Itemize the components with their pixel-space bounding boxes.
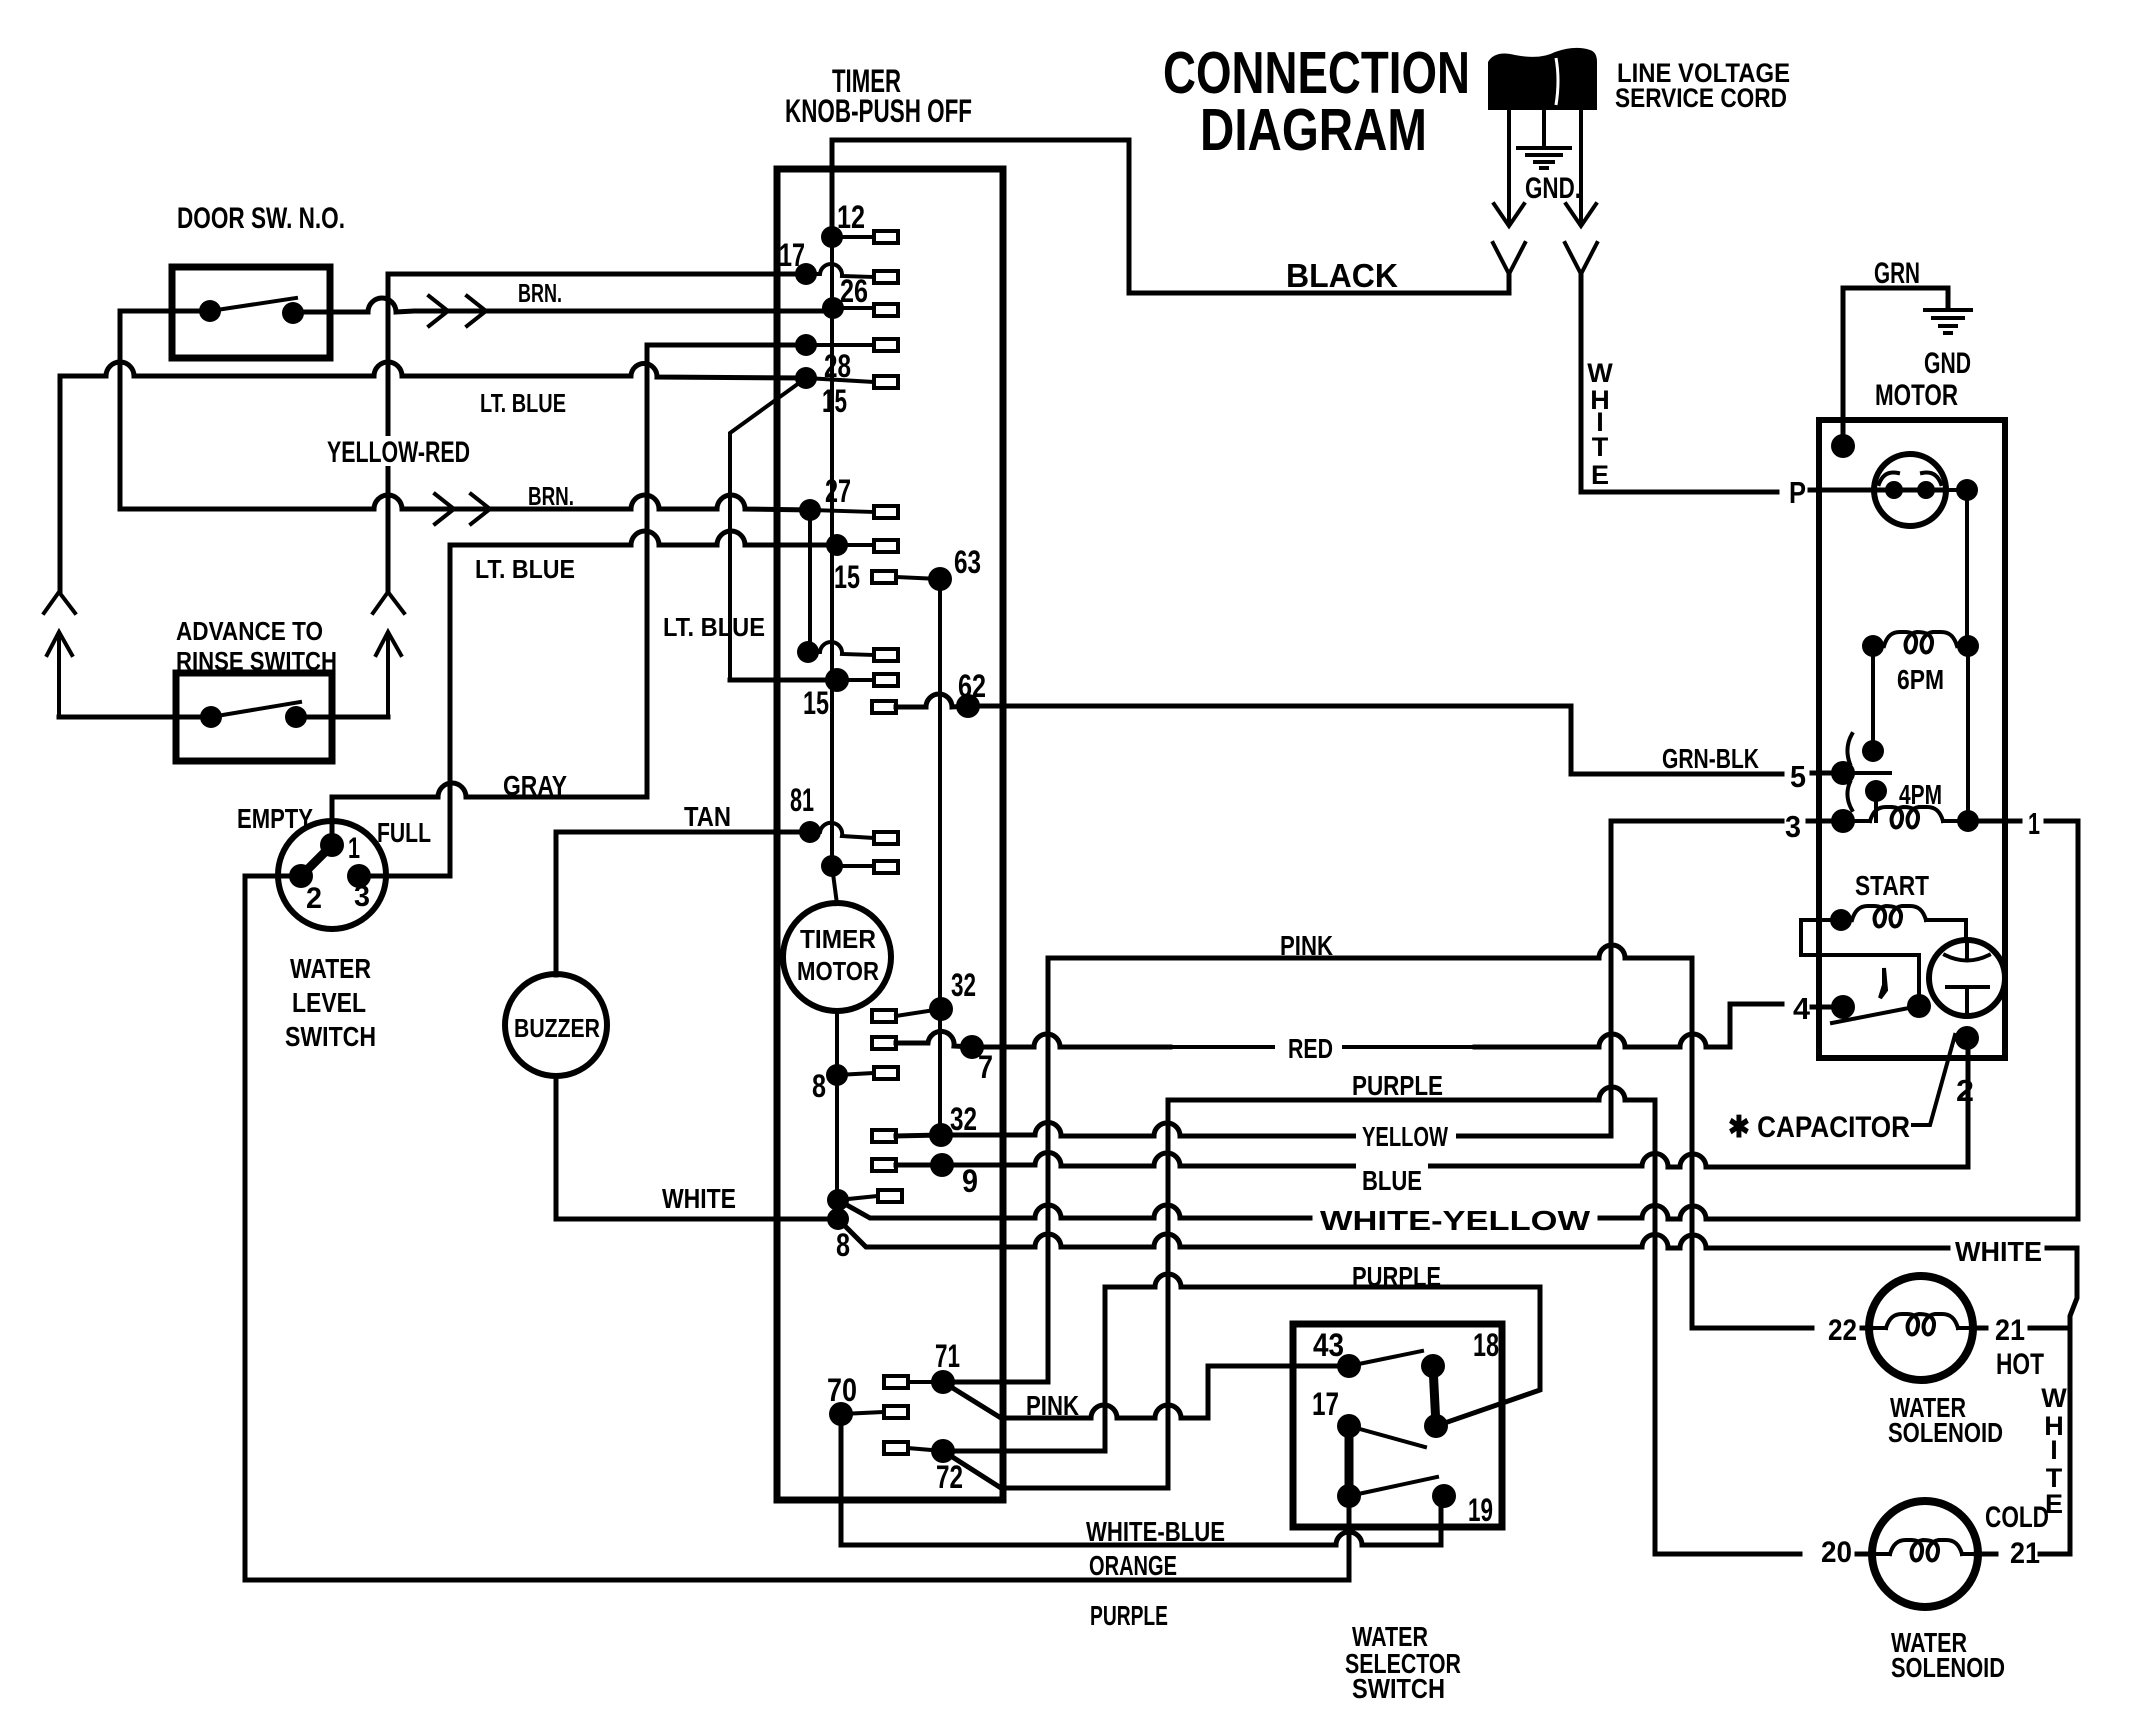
svg-text:62: 62 bbox=[958, 668, 986, 704]
svg-text:32: 32 bbox=[951, 967, 976, 1003]
water level contact 3 bbox=[347, 864, 371, 888]
svg-text:HOT: HOT bbox=[1996, 1348, 2044, 1381]
svg-text:17: 17 bbox=[779, 237, 805, 273]
selector pole dot 17 low bbox=[1337, 1484, 1361, 1508]
start switch arm bbox=[1832, 1006, 1919, 1023]
wire 3 stub bbox=[1808, 819, 1840, 824]
terminal 17 dot bbox=[795, 263, 817, 285]
wire cold 21 to white riser bbox=[1976, 1552, 2070, 1557]
capacitor circle bbox=[1929, 940, 2005, 1016]
wire 32a lug to junction bbox=[896, 1009, 941, 1016]
terminal 32a lug bbox=[872, 1010, 896, 1022]
terminal 62 lug bbox=[872, 701, 896, 713]
terminal 15b lug and wire to node 63 bbox=[872, 571, 896, 583]
rinse switch arm bbox=[211, 702, 300, 717]
selector contact 19 bbox=[1432, 1484, 1456, 1508]
selector contact 43 bbox=[1337, 1354, 1361, 1378]
svg-text:27: 27 bbox=[825, 473, 851, 509]
svg-text:KNOB-PUSH OFF: KNOB-PUSH OFF bbox=[785, 93, 972, 129]
svg-text:26: 26 bbox=[840, 273, 868, 309]
svg-text:19: 19 bbox=[1468, 1492, 1493, 1528]
svg-text:PURPLE: PURPLE bbox=[1352, 1070, 1443, 1101]
terminal 15 mid lug bbox=[837, 678, 874, 682]
title CONNECTION DIAGRAM bbox=[1163, 40, 1470, 163]
svg-text:2: 2 bbox=[1956, 1073, 1974, 1108]
svg-text:8: 8 bbox=[812, 1068, 826, 1104]
wire LT. BLUE 1 from left corner to terminal 15 bbox=[60, 362, 806, 378]
terminal 28 lug bbox=[806, 343, 874, 347]
terminal 17 squiggle to lug bbox=[806, 264, 874, 277]
wire LT. BLUE 2 from corner to terminal row 7 bbox=[450, 531, 837, 545]
hot solenoid coil bbox=[1871, 1314, 1971, 1335]
start switch fixed contact dot bbox=[1907, 994, 1931, 1018]
svg-text:LT. BLUE: LT. BLUE bbox=[480, 388, 566, 418]
terminal 71 lug bbox=[908, 1380, 943, 1384]
terminal 72 lug bbox=[908, 1448, 943, 1451]
node 32a junction dot bbox=[929, 997, 953, 1021]
terminal 81 squiggle to lug bbox=[810, 823, 874, 838]
node 9 dot bbox=[930, 1153, 954, 1177]
start switch bracket bbox=[1801, 920, 1919, 996]
svg-text:GRN: GRN bbox=[1874, 257, 1920, 290]
svg-text:ORANGE: ORANGE bbox=[1089, 1550, 1177, 1581]
wire timer feed to BLACK bbox=[830, 140, 835, 237]
terminal 81 dot bbox=[799, 821, 821, 843]
wire WHITE buzzer to terminal 8 bbox=[556, 1076, 838, 1219]
capacitor bottom dot bbox=[1955, 1026, 1979, 1050]
label YELLOW bbox=[1356, 1120, 1456, 1152]
motor box bbox=[1819, 420, 2005, 1058]
node 63 dot bbox=[928, 567, 952, 591]
wire 72 to purple2 riser bbox=[943, 1287, 1105, 1451]
door switch arm bbox=[210, 298, 296, 311]
svg-text:BLUE: BLUE bbox=[1362, 1165, 1422, 1196]
wire 6PM right dot down to row 3 bbox=[1966, 646, 1970, 821]
label W H I T E vertical bbox=[1587, 358, 1613, 490]
connector chevron right bbox=[373, 592, 404, 613]
connector chevron white lead bbox=[1565, 243, 1597, 274]
svg-text:3: 3 bbox=[354, 880, 370, 913]
wire BLACK from timer to plug bbox=[832, 140, 1509, 293]
centrifugal switch contacts bbox=[1885, 481, 1903, 499]
door switch contact right bbox=[282, 302, 304, 324]
svg-text:WHITE: WHITE bbox=[662, 1183, 736, 1214]
water level contact 2 bbox=[289, 864, 313, 888]
wire diagonal from terminal 15 to mid link bbox=[730, 378, 806, 680]
label WATER SELECTOR SWITCH bbox=[1345, 1621, 1461, 1704]
arrow pair on BRN 2 bbox=[435, 494, 490, 524]
plug left prong wire with arrow bbox=[1494, 110, 1524, 226]
wire WHITE from 8c diagonal to solenoid riser bbox=[838, 1219, 2077, 1554]
6PM winding bbox=[1862, 632, 1979, 657]
terminal 866 lug bbox=[832, 864, 874, 868]
svg-text:70: 70 bbox=[827, 1372, 857, 1408]
terminal 15a lug bbox=[806, 378, 874, 382]
terminal 7b lug bbox=[837, 543, 874, 547]
wire 22 dash bbox=[1862, 1326, 1870, 1331]
svg-text:15: 15 bbox=[834, 559, 860, 595]
ground symbol motor bbox=[1925, 310, 1971, 333]
terminal 70 dot bbox=[829, 1402, 853, 1426]
wire GRN from motor to ground bbox=[1843, 288, 1948, 446]
selector pole dot 18 bbox=[1424, 1414, 1448, 1438]
terminal 8b lug bbox=[838, 1196, 878, 1200]
selector pole bar 17 bbox=[1345, 1426, 1354, 1496]
terminal 27 dot bbox=[799, 499, 821, 521]
node 15 mid junction dot bbox=[825, 668, 849, 692]
wire from water level 2 down and bottom run to selector switch bbox=[245, 876, 1349, 1580]
svg-text:SOLENOID: SOLENOID bbox=[1891, 1652, 2005, 1683]
svg-text:81: 81 bbox=[790, 782, 814, 818]
svg-text:PURPLE: PURPLE bbox=[1352, 1261, 1441, 1292]
svg-text:3: 3 bbox=[1785, 809, 1801, 844]
timer internal link 27 to 15 bbox=[808, 510, 812, 652]
wire LT BLUE vertical to water level switch full contact bbox=[359, 545, 450, 876]
wire WHITE from plug to motor P bbox=[1581, 276, 1777, 492]
label TIMER MOTOR bbox=[797, 924, 879, 986]
svg-text:ADVANCE TO: ADVANCE TO bbox=[176, 616, 323, 646]
terminal 72 dot bbox=[931, 1439, 955, 1463]
selector arm 19 bbox=[1349, 1477, 1437, 1496]
connector chevron left bbox=[44, 592, 75, 613]
svg-text:START: START bbox=[1855, 870, 1929, 901]
wire start coil to capacitor bbox=[1964, 920, 1968, 941]
switch 5 contact upper dot bbox=[1862, 740, 1884, 762]
label W H I T E vertical right bbox=[2041, 1383, 2067, 1519]
svg-text:2: 2 bbox=[306, 882, 322, 915]
selector pole bar 18 bbox=[1433, 1366, 1436, 1426]
wire BRN 1 door switch to terminal 26 with bump over x388 bbox=[293, 298, 833, 312]
node 3 dot bbox=[1831, 809, 1855, 833]
wire 5 stub bbox=[1812, 771, 1840, 776]
wire 4 stub bbox=[1812, 1005, 1840, 1010]
label LINE VOLTAGE SERVICE CORD bbox=[1615, 58, 1790, 113]
terminal 8c dot bbox=[827, 1208, 849, 1230]
label WATER LEVEL SWITCH bbox=[285, 953, 376, 1052]
svg-text:LT. BLUE: LT. BLUE bbox=[475, 554, 575, 584]
wire 20 dash bbox=[1857, 1552, 1872, 1557]
switch 5 bar bbox=[1843, 771, 1890, 775]
svg-text:GRAY: GRAY bbox=[503, 770, 567, 801]
svg-text:PINK: PINK bbox=[1280, 930, 1333, 961]
svg-text:MOTOR: MOTOR bbox=[797, 956, 879, 986]
svg-text:DOOR SW. N.O.: DOOR SW. N.O. bbox=[177, 202, 345, 235]
wire 15 mid horizontal into timer bbox=[730, 678, 837, 683]
wire GRAY: water level 1 up and over to terminal 28 bbox=[332, 345, 806, 845]
timer box bbox=[777, 169, 1003, 1500]
capacitor pointer line bbox=[1913, 1035, 1955, 1125]
timer internal link 63 to 32 32 bbox=[938, 579, 942, 1135]
label ADVANCE TO RINSE SWITCH bbox=[176, 616, 337, 676]
selector contact 18 bbox=[1421, 1354, 1445, 1378]
cold solenoid coil bbox=[1874, 1540, 1974, 1561]
svg-text:TIMER: TIMER bbox=[800, 924, 876, 954]
svg-text:21: 21 bbox=[2010, 1537, 2040, 1570]
selector arm 43 bbox=[1349, 1351, 1422, 1366]
terminal 71 dot bbox=[931, 1370, 955, 1394]
svg-text:GND: GND bbox=[1924, 347, 1971, 380]
svg-text:9: 9 bbox=[962, 1163, 978, 1199]
svg-text:43: 43 bbox=[1313, 1327, 1344, 1363]
wire PURPLE2 from 72 riser to selector pole bbox=[1105, 1274, 1540, 1426]
wire BLUE 9 row with bumps bbox=[896, 1042, 1968, 1167]
arrow pair on BRN 1 bbox=[429, 296, 486, 326]
wire 72 diagonal to purple1 riser bbox=[943, 1100, 1168, 1488]
terminal 27 lug bbox=[810, 510, 874, 512]
svg-text:TAN: TAN bbox=[684, 801, 731, 832]
water level switch arm 2 to 1 bbox=[301, 845, 332, 876]
rinse switch contact left bbox=[200, 706, 222, 728]
wire rinse switch right lead bbox=[296, 715, 388, 720]
wire P through circle to right link bbox=[1946, 488, 1967, 492]
terminal 28 dot bbox=[795, 334, 817, 356]
svg-text:PINK: PINK bbox=[1026, 1390, 1079, 1421]
terminal 8a dot bbox=[826, 1064, 848, 1086]
timer internal link 12-26-7-15 vertical bbox=[830, 237, 834, 866]
node GRN entry dot bbox=[1831, 434, 1855, 458]
svg-text:WHITE-YELLOW: WHITE-YELLOW bbox=[1320, 1205, 1591, 1236]
switch 5 contact lower dot bbox=[1865, 780, 1887, 802]
connector arrow left bbox=[47, 632, 72, 717]
plug right prong wire with arrow bbox=[1566, 110, 1596, 226]
terminal 7 lug bbox=[872, 1037, 896, 1049]
start switch actuator tick bbox=[1880, 968, 1886, 998]
wire 70 down to white-blue run to selector 19 bbox=[841, 1414, 1441, 1545]
node 1 link dot bbox=[1957, 810, 1979, 832]
svg-text:15: 15 bbox=[803, 685, 829, 721]
svg-text:COLD: COLD bbox=[1985, 1501, 2049, 1534]
svg-text:71: 71 bbox=[935, 1338, 960, 1374]
water level contact 1 bbox=[320, 833, 344, 857]
wire 17 pole to orange run bbox=[1347, 1496, 1352, 1580]
svg-text:LEVEL: LEVEL bbox=[292, 987, 366, 1018]
selector switch box bbox=[1293, 1324, 1502, 1527]
label BLUE bbox=[1356, 1155, 1428, 1196]
advance to rinse switch box bbox=[176, 673, 332, 761]
terminal 8a lug bbox=[837, 1073, 874, 1075]
svg-text:1: 1 bbox=[2028, 806, 2040, 841]
connector arrow right bbox=[376, 632, 401, 717]
terminal 26 lug bbox=[833, 306, 874, 310]
terminal 15c dot bbox=[797, 641, 819, 663]
wire PINK 71 diagonal to selector 43 bbox=[943, 1366, 1349, 1418]
terminal 70 lug bbox=[841, 1412, 884, 1414]
svg-text:P: P bbox=[1789, 475, 1806, 510]
water level switch circle bbox=[278, 821, 386, 929]
svg-text:PURPLE: PURPLE bbox=[1090, 1600, 1168, 1631]
terminal 9 lug bbox=[872, 1159, 896, 1171]
node 5 dot bbox=[1831, 761, 1855, 785]
timer internal link pink 71 riser bbox=[943, 958, 1048, 1382]
node 62 dot bbox=[956, 694, 980, 718]
svg-text:72: 72 bbox=[936, 1459, 963, 1495]
svg-text:MOTOR: MOTOR bbox=[1875, 379, 1958, 412]
centrifugal switch circle at P bbox=[1874, 454, 1946, 526]
svg-text:FULL: FULL bbox=[377, 817, 431, 848]
svg-text:63: 63 bbox=[954, 544, 981, 580]
wire lower contact to 4PM coil bbox=[1874, 791, 1878, 821]
svg-text:SWITCH: SWITCH bbox=[1352, 1673, 1445, 1704]
svg-text:W: W bbox=[1587, 358, 1613, 388]
wire hot 21 to white riser bbox=[1972, 1326, 2070, 1331]
svg-text:BRN.: BRN. bbox=[518, 278, 562, 308]
svg-text:DIAGRAM: DIAGRAM bbox=[1200, 97, 1427, 163]
svg-text:21: 21 bbox=[1995, 1314, 2025, 1347]
svg-text:LT. BLUE: LT. BLUE bbox=[663, 612, 765, 642]
svg-text:RED: RED bbox=[1288, 1033, 1333, 1064]
door switch box bbox=[172, 267, 330, 358]
svg-text:15: 15 bbox=[822, 383, 847, 419]
svg-text:SERVICE CORD: SERVICE CORD bbox=[1615, 83, 1787, 113]
terminal 7b dot bbox=[826, 534, 848, 556]
svg-text:17: 17 bbox=[1312, 1386, 1339, 1422]
terminal 26 dot bbox=[822, 297, 844, 319]
svg-text:BUZZER: BUZZER bbox=[514, 1013, 600, 1043]
svg-text:W: W bbox=[2041, 1383, 2067, 1413]
switch 5 actuator arcs bbox=[1847, 734, 1852, 810]
svg-text:1: 1 bbox=[348, 832, 360, 865]
connector chevron black lead bbox=[1493, 243, 1525, 274]
svg-text:20: 20 bbox=[1821, 1536, 1852, 1569]
wire PINK from timer riser to hot solenoid 22 bbox=[1048, 945, 1812, 1328]
START winding bbox=[1830, 906, 1966, 931]
timer motor circle bbox=[783, 903, 891, 1011]
svg-text:GRN-BLK: GRN-BLK bbox=[1662, 743, 1759, 774]
svg-text:SWITCH: SWITCH bbox=[285, 1021, 376, 1052]
wire timer motor feed bbox=[832, 866, 837, 1219]
wire row 3 to label 1 bbox=[1968, 819, 2020, 824]
label TIMER KNOB-PUSH OFF bbox=[785, 63, 972, 129]
wire door switch left to corner down bbox=[120, 311, 210, 509]
cold water solenoid circle bbox=[1872, 1501, 1978, 1607]
wire 1 stub to riser bbox=[2046, 819, 2078, 824]
wire YELLOW 32b row with bumps bbox=[896, 821, 1782, 1136]
terminal 866 dot bbox=[821, 855, 843, 877]
wire RED 7 row with bumps bbox=[896, 1004, 1782, 1047]
capacitor plates bbox=[1945, 941, 1989, 1015]
terminal 12 dot bbox=[821, 226, 843, 248]
svg-text:12: 12 bbox=[837, 199, 865, 235]
svg-text:WHITE: WHITE bbox=[1955, 1236, 2042, 1267]
svg-text:6PM: 6PM bbox=[1897, 664, 1944, 695]
node motor right top dot bbox=[1956, 479, 1978, 501]
node 7 dot bbox=[960, 1035, 984, 1059]
wire WHITE-YELLOW from 8b diagonal bbox=[838, 821, 2078, 1219]
door switch contact left bbox=[199, 300, 221, 322]
svg-text:WATER: WATER bbox=[290, 953, 371, 984]
terminal 8b dot bbox=[827, 1189, 849, 1211]
terminal 15c squiggle to lug bbox=[808, 642, 874, 655]
svg-text:18: 18 bbox=[1473, 1327, 1499, 1363]
hot water solenoid circle bbox=[1869, 1276, 1973, 1380]
label WATER SOLENOID cold bbox=[1891, 1627, 2005, 1683]
dash left of RED bbox=[1171, 1045, 1273, 1049]
svg-text:5: 5 bbox=[1790, 759, 1806, 794]
svg-text:WHITE-BLUE: WHITE-BLUE bbox=[1086, 1516, 1225, 1547]
wire link top dot down to 6PM bbox=[1965, 490, 1969, 646]
wire terminal 17 to right connector vertical bbox=[388, 274, 806, 592]
node 4 dot bbox=[1831, 995, 1855, 1019]
wire rinse switch left lead bbox=[59, 715, 211, 720]
svg-text:SOLENOID: SOLENOID bbox=[1888, 1417, 2003, 1448]
selector arm 17 bbox=[1349, 1426, 1425, 1447]
buzzer circle bbox=[505, 974, 607, 1076]
label YELLOW-RED bbox=[322, 436, 474, 469]
selector contact 17 bbox=[1337, 1414, 1361, 1438]
svg-text:32: 32 bbox=[950, 1101, 977, 1137]
wire P stub into motor box bbox=[1810, 488, 1946, 493]
line voltage service cord plug bbox=[1488, 48, 1597, 110]
wire left vertical to connector bbox=[58, 376, 63, 592]
terminal 32b lug bbox=[872, 1130, 896, 1142]
svg-text:GND.: GND. bbox=[1525, 172, 1581, 205]
rinse switch contact right bbox=[285, 706, 307, 728]
wire BRN 2 from door-left vertical to terminal 27 bbox=[120, 495, 810, 510]
svg-text:E: E bbox=[1591, 460, 1609, 490]
svg-text:BRN.: BRN. bbox=[528, 481, 574, 511]
svg-text:4: 4 bbox=[1793, 991, 1811, 1026]
terminal 12 lug bbox=[832, 235, 874, 239]
svg-text:BLACK: BLACK bbox=[1286, 257, 1398, 294]
wire 62 to GRN-BLK with bump over 63 link bbox=[896, 694, 1782, 774]
svg-text:YELLOW-RED: YELLOW-RED bbox=[327, 436, 470, 469]
svg-text:22: 22 bbox=[1828, 1314, 1857, 1347]
ground symbol at plug bbox=[1518, 110, 1570, 168]
svg-text:YELLOW: YELLOW bbox=[1362, 1121, 1448, 1152]
4PM winding row 3 bbox=[1843, 807, 1957, 828]
svg-text:I: I bbox=[2050, 1435, 2058, 1465]
label WATER SOLENOID hot bbox=[1888, 1392, 2003, 1448]
node 32b junction dot bbox=[929, 1123, 953, 1147]
wire 6PM left dot down to switch contact bbox=[1871, 646, 1875, 751]
terminal 15a dot bbox=[795, 367, 817, 389]
wire TAN from corner down to buzzer and right to terminal 81 bbox=[556, 832, 810, 975]
svg-text:✱ CAPACITOR: ✱ CAPACITOR bbox=[1728, 1111, 1910, 1144]
dash right of RED bbox=[1344, 1045, 1475, 1049]
svg-text:T: T bbox=[1592, 432, 1609, 462]
svg-text:7: 7 bbox=[978, 1049, 993, 1085]
wire PURPLE1 from 72 riser to cold solenoid 20 bbox=[1168, 1087, 1800, 1554]
